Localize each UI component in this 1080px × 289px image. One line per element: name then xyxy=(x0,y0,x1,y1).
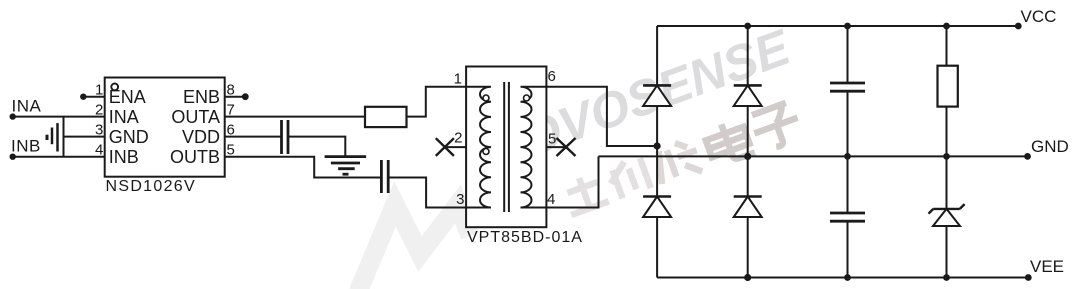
svg-text:2: 2 xyxy=(95,102,103,119)
svg-text:NSD1026V: NSD1026V xyxy=(106,178,196,195)
svg-text:1: 1 xyxy=(454,70,462,87)
svg-text:INA: INA xyxy=(12,97,42,116)
svg-text:VPT85BD-01A: VPT85BD-01A xyxy=(467,229,583,246)
svg-text:8: 8 xyxy=(227,82,235,99)
svg-text:3: 3 xyxy=(95,122,103,139)
svg-text:VDD: VDD xyxy=(182,127,220,147)
svg-text:VEE: VEE xyxy=(1030,257,1064,276)
svg-text:7: 7 xyxy=(227,102,235,119)
svg-text:6: 6 xyxy=(548,68,556,85)
svg-text:5: 5 xyxy=(548,130,556,147)
svg-text:OUTA: OUTA xyxy=(171,107,220,127)
svg-text:3: 3 xyxy=(456,191,464,208)
svg-text:4: 4 xyxy=(95,142,103,159)
svg-text:4: 4 xyxy=(547,191,555,208)
svg-text:GND: GND xyxy=(109,127,149,147)
svg-text:INB: INB xyxy=(109,147,139,167)
svg-text:GND: GND xyxy=(1031,137,1069,156)
svg-text:ENB: ENB xyxy=(183,87,220,107)
svg-text:VCC: VCC xyxy=(1021,7,1057,26)
svg-text:INA: INA xyxy=(109,107,139,127)
svg-text:INB: INB xyxy=(11,137,41,156)
svg-text:5: 5 xyxy=(227,142,235,159)
svg-text:2: 2 xyxy=(454,130,462,147)
svg-text:1: 1 xyxy=(95,82,103,99)
svg-text:ENA: ENA xyxy=(109,87,146,107)
svg-text:OUTB: OUTB xyxy=(170,147,220,167)
svg-text:6: 6 xyxy=(227,122,235,139)
